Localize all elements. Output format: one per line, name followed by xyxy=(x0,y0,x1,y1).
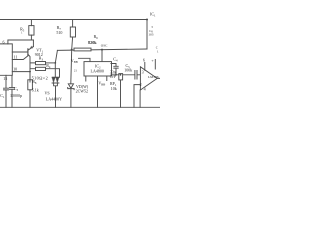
svg-text:4: 4 xyxy=(144,87,146,92)
svg-text:OSC: OSC xyxy=(101,44,108,48)
svg-text:10000p: 10000p xyxy=(10,93,22,98)
svg-text:LA4400Y: LA4400Y xyxy=(46,97,62,102)
svg-text:2: 2 xyxy=(140,82,142,87)
svg-text:5.1k: 5.1k xyxy=(32,87,39,92)
svg-text:VS: VS xyxy=(45,90,50,95)
svg-text:103: 103 xyxy=(148,33,153,37)
svg-text:10k: 10k xyxy=(111,86,117,91)
svg-text:3: 3 xyxy=(142,69,144,74)
svg-text:510: 510 xyxy=(56,30,62,35)
svg-text:6: 6 xyxy=(143,58,145,63)
svg-text:100k: 100k xyxy=(124,68,132,73)
svg-text:10: 10 xyxy=(13,66,17,71)
svg-text:2CW52: 2CW52 xyxy=(76,88,88,93)
svg-text:11: 11 xyxy=(14,55,18,60)
svg-text:O/P: O/P xyxy=(110,74,117,79)
svg-text:LM386: LM386 xyxy=(148,75,159,79)
svg-text:6: 6 xyxy=(3,40,5,45)
svg-text:15: 15 xyxy=(3,76,7,81)
svg-text:820k: 820k xyxy=(88,40,97,45)
svg-text:LA4800: LA4800 xyxy=(91,69,104,74)
